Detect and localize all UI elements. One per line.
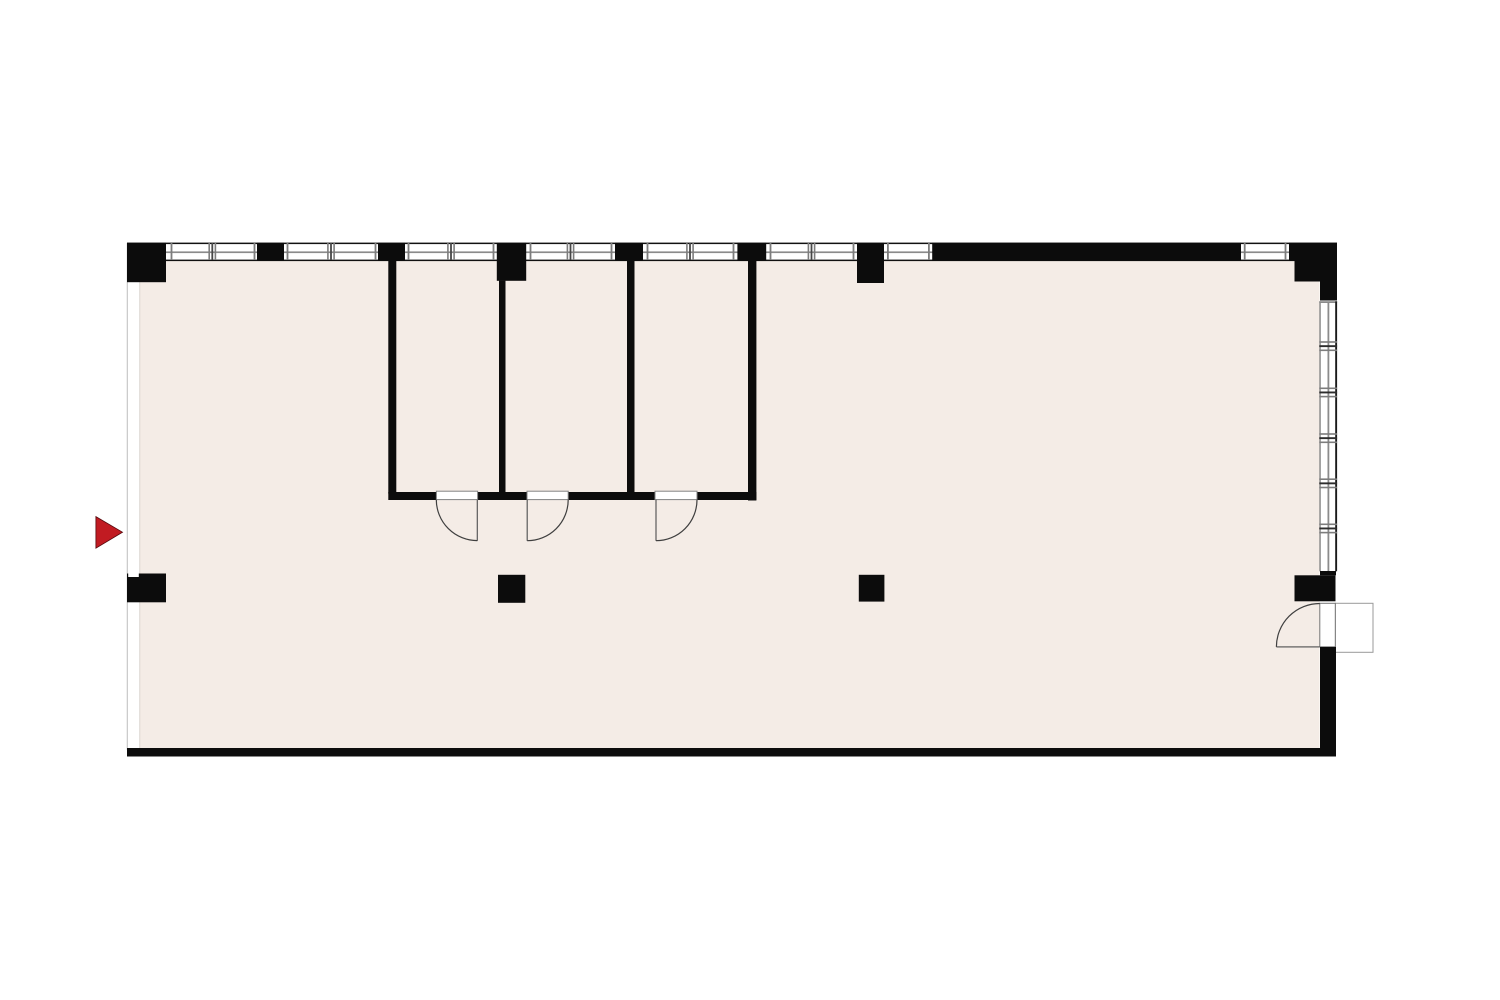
top window band backdrop [166, 243, 1289, 259]
interior column mid-2 [859, 575, 885, 602]
rooms bottom wall segment 3 [568, 492, 655, 500]
door opening 2 casing [527, 491, 568, 499]
partition wall 2 [499, 281, 506, 494]
corner column top-left [127, 243, 166, 282]
window group 5 frame lines [647, 243, 735, 260]
rooms bottom wall segment 2 [478, 492, 527, 500]
partition wall 4 [748, 260, 756, 501]
right wall below door [1320, 647, 1336, 757]
window group 2 mullion dark line [330, 243, 332, 260]
right window band top frame line [1319, 301, 1337, 303]
door 2 leaf [527, 500, 528, 541]
rooms bottom wall segment 1 [388, 492, 436, 500]
window group 4 mullion dark line [570, 243, 572, 260]
floor inner edge line [139, 261, 140, 748]
door opening 3 casing [655, 491, 697, 499]
window group 7 frame lines [887, 243, 930, 260]
window group 3 mullion dark line [450, 243, 452, 260]
facade pier D [615, 243, 643, 261]
right band divider 3 [1319, 433, 1337, 443]
facade column F [857, 243, 884, 283]
facade pier E [737, 243, 766, 261]
right band divider 1 [1319, 341, 1337, 351]
rooms bottom wall segment 4 [697, 492, 756, 500]
door 3 leaf [655, 500, 656, 541]
door 2 swing arc [527, 500, 568, 541]
exterior landing platform [1335, 603, 1373, 652]
left band notch over column [128, 573, 139, 577]
facade pier B [378, 243, 405, 261]
partition wall 1 [388, 260, 396, 494]
entry door leaf panel [1320, 603, 1336, 647]
right window band outer line [1335, 301, 1337, 571]
left curtain wall line [127, 243, 128, 750]
window group 1 mullion dark line [211, 243, 213, 260]
top-right corner wall step [1289, 243, 1337, 301]
window group 5 mullion dark line [689, 243, 691, 260]
top band glass line [166, 251, 1289, 253]
right band divider 2 [1319, 388, 1337, 398]
door opening 1 casing [436, 491, 477, 499]
entry door open leaf line [1276, 646, 1319, 647]
interior column mid-1 [498, 575, 525, 603]
door 1 swing arc [436, 500, 477, 541]
floor slab [140, 261, 1320, 748]
top band sill line [127, 260, 1337, 262]
interior column right-middle [1295, 575, 1336, 601]
top band top edge line [127, 243, 1337, 245]
window group 4 frame lines [530, 243, 613, 260]
right band bottom cap [1320, 571, 1336, 575]
right band divider 4 [1319, 478, 1337, 488]
entry door swing arc [1276, 604, 1319, 647]
window group 1 frame lines [171, 243, 256, 260]
top solid wall [932, 243, 1241, 261]
window group 8 frame lines [1244, 243, 1287, 260]
window group 6 frame lines [770, 243, 855, 260]
window group 6 mullion dark line [811, 243, 813, 260]
facade pier C [497, 243, 526, 281]
right window band glass line [1328, 303, 1330, 571]
entrance arrow [96, 517, 123, 549]
window group 3 frame lines [408, 243, 495, 260]
door 3 swing arc [656, 500, 697, 541]
door 1 leaf [477, 500, 478, 541]
partition wall 3 [627, 260, 635, 494]
bottom wall [127, 748, 1336, 757]
right band divider 5 [1319, 524, 1337, 534]
window group 2 frame lines [287, 243, 377, 260]
interior column left-middle [127, 574, 166, 603]
right window band inner line [1319, 301, 1321, 571]
facade pier A [257, 243, 284, 261]
